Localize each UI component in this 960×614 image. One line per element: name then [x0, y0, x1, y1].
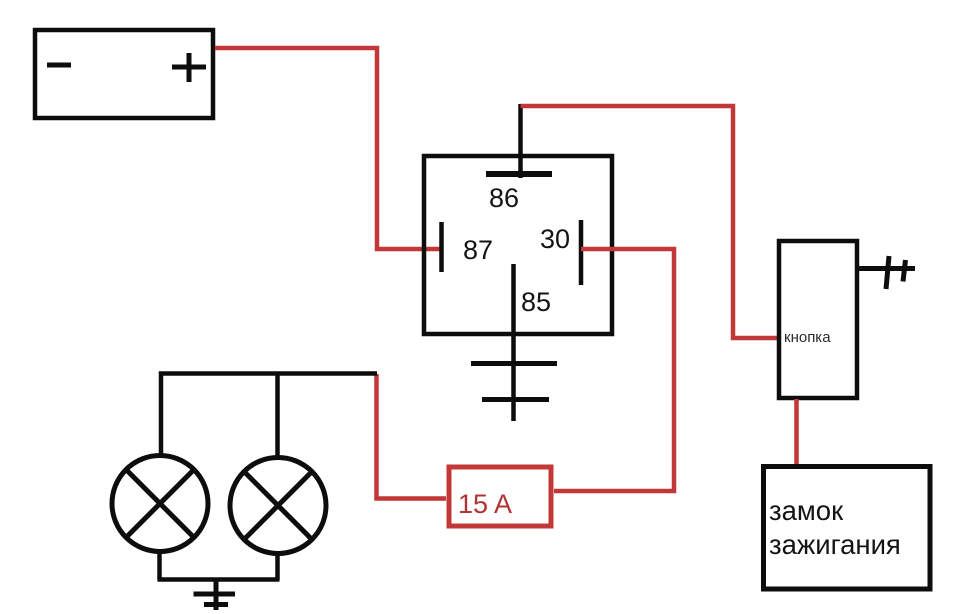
wire battery+ to relay 87 (red) [215, 48, 443, 249]
ground under relay [471, 364, 557, 400]
pin 86 bar [486, 171, 552, 177]
ignition lock [764, 467, 931, 590]
pin 86 lead wire [518, 104, 523, 178]
svg-text:15 A: 15 A [458, 489, 512, 519]
wire 30 to fuse (red) [554, 249, 674, 491]
svg-text:замок: замок [769, 495, 844, 526]
battery minus terminal [47, 63, 71, 68]
svg-text:85: 85 [521, 287, 551, 317]
fuse F1 [449, 467, 551, 526]
lamp L1 [112, 456, 208, 552]
svg-text:зажигания: зажигания [769, 529, 901, 560]
ground under lamps [194, 578, 236, 610]
wire lamp2 to ground bus [275, 553, 280, 580]
relay [424, 156, 612, 334]
lamp L2 [230, 458, 326, 554]
wire 86 to button (red) [521, 106, 778, 338]
pin 30 [579, 220, 584, 285]
wire lamp bus (black) [161, 374, 377, 457]
pin 85 lead wire [511, 264, 516, 421]
button contact symbol [858, 256, 915, 289]
svg-text:30: 30 [540, 224, 570, 254]
battery [35, 30, 213, 118]
svg-text:87: 87 [463, 235, 493, 265]
button S1 [779, 241, 857, 398]
pin 87 [439, 222, 444, 272]
battery plus terminal [172, 53, 206, 82]
wire ground bus [158, 577, 280, 582]
wire lamp1 to ground bus [157, 551, 162, 580]
wire lamps to fuse (red) [377, 374, 447, 499]
wire button to ignition lock (red) [794, 399, 799, 467]
svg-text:86: 86 [489, 183, 519, 213]
wire lamp2 drop [275, 374, 280, 460]
svg-text:кнопка: кнопка [784, 329, 831, 346]
